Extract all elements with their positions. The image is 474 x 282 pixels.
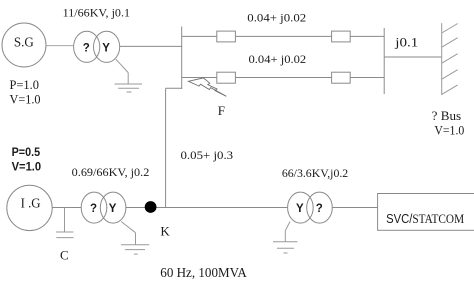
svg-text:0.69/66KV, j0.2: 0.69/66KV, j0.2 bbox=[72, 165, 150, 179]
ground of T1 bbox=[115, 59, 143, 92]
svg-text:V=1.0: V=1.0 bbox=[434, 123, 464, 137]
transformer T2 bbox=[81, 192, 126, 223]
impedance box R4 bbox=[332, 72, 351, 83]
svg-text:?: ? bbox=[90, 203, 97, 215]
svg-text:S.G: S.G bbox=[14, 36, 34, 51]
ground of T2 bbox=[121, 222, 149, 255]
fault lightning bolt bbox=[188, 78, 226, 96]
svg-text:V=1.0: V=1.0 bbox=[10, 93, 41, 107]
impedance box R2 bbox=[332, 31, 351, 42]
impedance box R1 bbox=[217, 31, 236, 42]
svg-text:K: K bbox=[160, 223, 170, 238]
svg-text:?: ? bbox=[83, 42, 90, 54]
wire SG to T1 bbox=[46, 45, 74, 47]
svg-text:P=0.5: P=0.5 bbox=[12, 145, 41, 159]
wire T3 to SVC box bbox=[332, 207, 377, 209]
SVC/STATCOM box bbox=[378, 194, 474, 231]
svg-text:F: F bbox=[218, 103, 225, 118]
wire T1 to bus1 bbox=[120, 45, 182, 47]
generator I.G bbox=[7, 185, 52, 230]
svg-text:0.04+ j0.02: 0.04+ j0.02 bbox=[247, 10, 306, 24]
wire IG to T2 bbox=[52, 207, 81, 209]
svg-text:I .G: I .G bbox=[21, 197, 41, 212]
svg-text:V=1.0: V=1.0 bbox=[12, 160, 42, 174]
wire T2 to SVC transformer bbox=[126, 207, 288, 209]
generator S.G bbox=[2, 23, 46, 67]
svg-text:SVC/STATCOM: SVC/STATCOM bbox=[386, 211, 464, 226]
svg-text:0.05+ j0.3: 0.05+ j0.3 bbox=[181, 148, 234, 162]
svg-text:60 Hz, 100MVA: 60 Hz, 100MVA bbox=[160, 266, 247, 281]
wire feeder vertical bbox=[165, 88, 167, 207]
svg-text:0.04+ j0.02: 0.04+ j0.02 bbox=[249, 52, 307, 66]
node K bbox=[145, 201, 157, 213]
svg-text:C: C bbox=[60, 248, 69, 263]
wire stub bus1 to feeder bbox=[166, 87, 182, 89]
svg-text:66/3.6KV,j0.2: 66/3.6KV,j0.2 bbox=[282, 166, 348, 180]
svg-text:11/66KV, j0.1: 11/66KV, j0.1 bbox=[63, 5, 130, 19]
svg-text:Y: Y bbox=[102, 42, 110, 54]
wire line2 bbox=[182, 77, 385, 79]
bus node B1 (left bus) bbox=[181, 27, 183, 90]
ground of T3 bbox=[273, 222, 298, 254]
impedance box R3 bbox=[217, 72, 236, 83]
bus node B2 (right bus) bbox=[383, 28, 385, 94]
wire line1 top bbox=[182, 35, 385, 37]
svg-text:Y: Y bbox=[109, 203, 117, 215]
svg-text:Y: Y bbox=[296, 203, 304, 215]
wire bus2 to infinite bus bbox=[384, 56, 442, 58]
svg-text:P=1.0: P=1.0 bbox=[10, 78, 40, 92]
capacitor C bbox=[56, 208, 74, 238]
infinite bus wall bbox=[442, 23, 458, 95]
transformer T1 bbox=[74, 31, 120, 62]
svg-text:?: ? bbox=[316, 203, 323, 215]
svg-text:j0.1: j0.1 bbox=[394, 35, 418, 49]
transformer T3 bbox=[288, 192, 333, 223]
svg-text:? Bus: ? Bus bbox=[432, 109, 462, 123]
